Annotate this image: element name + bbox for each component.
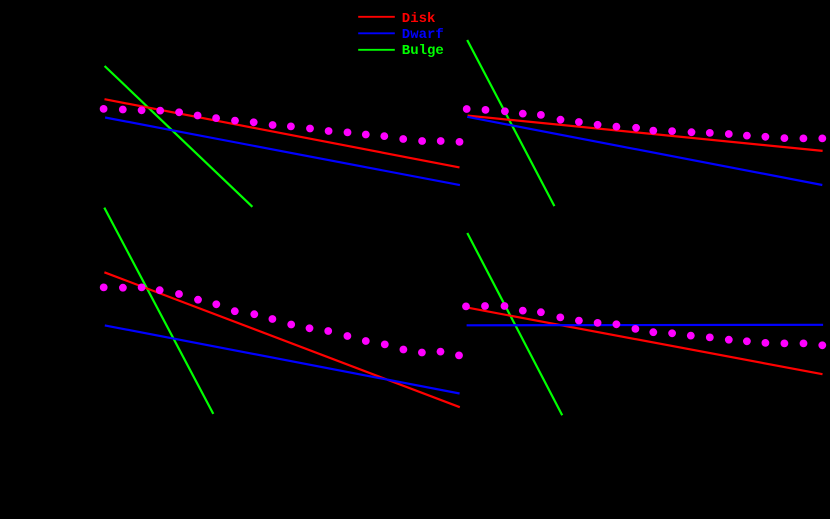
top-right panel bulge line (green) (467, 40, 554, 206)
bottom-right panel data points (magenta dots) (462, 302, 826, 349)
legend sample line Disk (358, 16, 395, 18)
bottom-left panel dwarf line (blue) (105, 325, 460, 393)
svg-text:Bulge: Bulge (402, 43, 444, 59)
top-left panel data points (magenta dots) (100, 105, 464, 146)
top-left panel dwarf line (blue) (105, 118, 460, 186)
bottom-left panel data points (magenta dots) (100, 284, 463, 360)
top-right panel data points (magenta dots) (463, 105, 826, 142)
top-right panel disk line (red) (468, 116, 823, 151)
svg-text:Disk: Disk (402, 11, 436, 27)
top-left panel disk line (red) (105, 99, 460, 167)
bottom-left panel bulge line (green) (104, 208, 213, 414)
bottom-right panel bulge line (green) (467, 233, 562, 415)
bottom-right panel disk line (red) (467, 308, 822, 375)
bottom-right panel dwarf line (blue, horizontal) (467, 324, 823, 327)
svg-text:Dwarf: Dwarf (402, 27, 444, 43)
legend sample line Dwarf (358, 32, 395, 34)
top-right panel dwarf line (blue) (467, 117, 822, 185)
legend sample line Bulge (358, 49, 395, 51)
bottom-left panel disk line (red) (104, 272, 459, 407)
top-left panel bulge line (green) (105, 66, 253, 207)
